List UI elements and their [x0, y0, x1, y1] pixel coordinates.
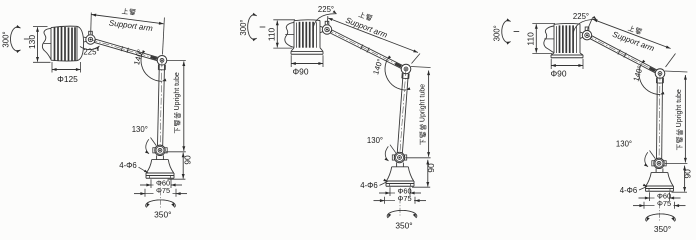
- lamp2 label 225° with arc: [313, 14, 337, 31]
- lamp3 dimension Φ60: [649, 192, 651, 201]
- svg-text:140°: 140°: [371, 58, 385, 76]
- svg-text:Φ90: Φ90: [551, 69, 567, 79]
- lamp2 base bell and flange: [396, 163, 398, 167]
- lamp1 elbow joint: [157, 56, 167, 66]
- svg-text:90: 90: [426, 163, 436, 173]
- lamp3 dimension 110 (head height): [532, 22, 555, 24]
- lamp3 label 上臂: [628, 25, 643, 35]
- lamp1 rotation label 350°: [146, 200, 176, 208]
- lamp2 rotation label 350°: [387, 210, 417, 218]
- lamp3 label 下臂管Upright tube: [676, 89, 683, 150]
- svg-text:225°: 225°: [318, 5, 334, 14]
- svg-text:Φ90: Φ90: [293, 67, 309, 77]
- lamp2 head (ribbed shade): [294, 19, 320, 22]
- lamp3 elbow joint: [655, 69, 665, 79]
- lamp2 upright tube dimension line: [411, 67, 431, 68]
- svg-text:130°: 130°: [616, 140, 632, 149]
- svg-text:110: 110: [267, 27, 277, 41]
- svg-text:300°: 300°: [239, 19, 248, 35]
- lamp1 label 225° with arc: [80, 46, 100, 50]
- svg-text:225°: 225°: [573, 12, 589, 21]
- svg-text:140°: 140°: [631, 64, 645, 82]
- lamp2 dimension Φ60: [389, 187, 391, 196]
- lamp2 elbow joint: [401, 64, 411, 74]
- svg-text:Φ75: Φ75: [657, 199, 671, 208]
- lamp3 rotation label 350°: [646, 214, 676, 222]
- lamp1 dimension Φ125 (head diameter): [51, 62, 53, 73]
- svg-text:350°: 350°: [654, 224, 671, 234]
- svg-text:130°: 130°: [132, 125, 148, 134]
- lamp1 base bell and flange: [156, 155, 158, 159]
- lamp1 label 下臂管Upright tube: [174, 72, 181, 133]
- lamp3 base bell and flange: [655, 168, 657, 172]
- svg-text:225°: 225°: [83, 48, 99, 57]
- svg-text:350°: 350°: [154, 210, 171, 220]
- svg-text:Upright tube: Upright tube: [676, 89, 683, 127]
- lamp2 dimension Φ90 (head diameter): [290, 55, 292, 67]
- lamp2 base joint J2: [392, 155, 394, 160]
- lamp1 upright tube (elbow to base joint): [158, 65, 160, 146]
- lamp2 label 上臂: [358, 11, 373, 21]
- lamp3 label 225° with arc: [573, 19, 597, 36]
- svg-text:Φ75: Φ75: [397, 194, 411, 203]
- svg-text:90: 90: [683, 169, 693, 179]
- lamp1 base centerline: [159, 181, 161, 209]
- lamp3 dimension Φ90 (head diameter): [550, 59, 552, 69]
- lamp3 base centerline: [659, 194, 661, 222]
- lamp2 support arm dimension line: [326, 16, 328, 24]
- lamp3 support arm dimension line: [587, 17, 592, 29]
- lamp3 dimension Φ75: [643, 202, 645, 209]
- svg-text:4-Φ6: 4-Φ6: [119, 161, 137, 170]
- svg-text:Support arm: Support arm: [108, 18, 153, 33]
- lamp1 dimension Φ60: [150, 179, 152, 188]
- lamp2 swivel joint J1 at head: [320, 26, 324, 27]
- svg-text:Φ125: Φ125: [57, 74, 78, 84]
- svg-text:90: 90: [183, 155, 193, 165]
- lamp1 base joint J2: [153, 148, 155, 153]
- lamp2 dimension 110 (head height): [273, 19, 295, 21]
- lamp1 dimension Φ75: [144, 189, 146, 197]
- svg-text:Upright tube: Upright tube: [174, 72, 181, 110]
- lamp3 base joint J2: [652, 161, 654, 166]
- lamp3 upright tube dimension line: [665, 71, 688, 72]
- svg-text:300°: 300°: [493, 25, 502, 41]
- lamp1 upright tube dimension line: [167, 59, 186, 61]
- lamp3 support arm (J1 to elbow): [590, 39, 655, 73]
- lamp2 support arm (J1 to elbow): [330, 33, 401, 68]
- lamp2 base centerline: [399, 189, 401, 217]
- lamp3 dimension 90 (base height): [672, 191, 688, 193]
- lamp1 support arm (J1 to elbow): [94, 42, 157, 60]
- lamp1 dimension 130 (head height): [33, 26, 48, 28]
- svg-text:Φ75: Φ75: [156, 186, 170, 195]
- svg-text:Upright tube: Upright tube: [419, 84, 426, 122]
- lamp2 upright tube: [397, 73, 403, 152]
- svg-text:130: 130: [27, 35, 37, 49]
- lamp1 support arm dimension line: [90, 13, 93, 35]
- lamp1 head (ribbed shade, faces left): [51, 26, 77, 27]
- lamp1 dimension 90 (base height): [168, 178, 186, 180]
- lamp2 label 下臂管Upright tube: [419, 84, 426, 145]
- svg-text:350°: 350°: [395, 220, 412, 230]
- svg-text:130°: 130°: [367, 136, 383, 145]
- lamp1 swivel joint J1 at head: [89, 31, 93, 35]
- svg-text:4-Φ6: 4-Φ6: [620, 186, 638, 195]
- svg-text:4-Φ6: 4-Φ6: [360, 181, 378, 190]
- lamp2 dimension 90 (base height): [412, 186, 430, 188]
- svg-text:110: 110: [526, 32, 536, 46]
- lamp3 upright tube: [656, 78, 659, 158]
- lamp3 head (ribbed shade): [554, 22, 580, 25]
- lamp2 dimension Φ75: [384, 197, 386, 204]
- lamp3 swivel joint J1 at head: [580, 32, 584, 33]
- svg-text:300°: 300°: [1, 31, 10, 47]
- lamp1 label 上臂: [122, 8, 136, 16]
